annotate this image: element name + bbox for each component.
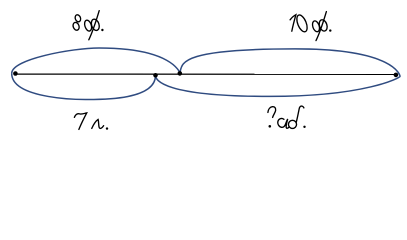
label: ? яб. [268,106,304,128]
wire: horizontal segment line [15,73,396,75]
left ellipse (7 г. bracket) bottom arc [12,73,156,99]
right ellipse (? яб. bracket) bottom arc [156,75,401,96]
label: 7 г. [74,113,103,129]
label: 10 ф. [290,12,328,41]
node: middle dot 2 [178,71,183,76]
node: right endpoint dot [394,73,399,78]
right ellipse (10 ф. bracket) top arc [180,49,400,77]
node: left endpoint dot [13,71,18,76]
node: middle dot 1 [153,73,158,78]
label: 8 ф. [72,11,101,40]
left ellipse (8 ф. bracket) top arc [12,48,180,73]
